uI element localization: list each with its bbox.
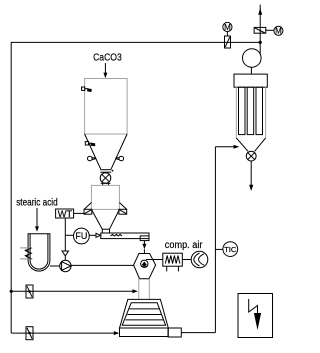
power supply symbol box xyxy=(238,294,273,338)
silo S1 body xyxy=(85,79,128,135)
svg-text:WT: WT xyxy=(58,209,73,219)
wire: tank to pump xyxy=(50,265,60,267)
mill hexagon xyxy=(134,254,156,279)
arrow: stearic acid feed xyxy=(35,208,39,232)
rotary valve RV2 xyxy=(246,151,256,161)
svg-text:M: M xyxy=(224,23,231,32)
level switch low xyxy=(85,142,95,147)
fan B1 xyxy=(243,49,262,74)
wire: recirculation top header xyxy=(11,41,260,43)
filter bag 2 xyxy=(247,87,254,134)
svg-text:CaCO3: CaCO3 xyxy=(93,52,122,63)
wire: right riser xyxy=(214,147,216,333)
wire: recirc lower into mill base xyxy=(11,331,119,335)
signal: branch to FU xyxy=(65,234,73,236)
heater element xyxy=(20,248,32,259)
instrument TIC xyxy=(215,242,237,257)
svg-text:FU: FU xyxy=(75,231,87,241)
wire: pump to mill xyxy=(71,264,134,266)
compressor K1 xyxy=(191,251,208,268)
valve V1 recirc damper xyxy=(225,36,231,48)
instrument FU xyxy=(74,228,90,244)
hopper discharge cone xyxy=(91,209,119,229)
svg-text:TIC: TIC xyxy=(224,245,237,254)
valve V4 xyxy=(26,327,33,340)
wire: heater to compressor xyxy=(182,259,191,261)
motor M2 xyxy=(266,26,283,35)
mill neck xyxy=(139,279,150,300)
signal: FU to feeder xyxy=(89,233,101,237)
load cell right xyxy=(119,203,127,215)
motor M1 xyxy=(223,22,232,36)
screw feeder xyxy=(101,229,149,240)
filter cone xyxy=(236,138,265,151)
signal: WT down to pump xyxy=(62,218,68,260)
level switch high xyxy=(82,87,92,92)
valve V3 xyxy=(26,285,33,298)
tank T1 jacketed vessel xyxy=(28,234,50,271)
mill stand inner grinding rings xyxy=(122,303,165,326)
wire: filter inlet xyxy=(215,145,239,149)
heater H1 xyxy=(163,253,183,271)
rotary valve RV1 xyxy=(100,173,111,186)
signal: WT to load cell xyxy=(74,212,84,214)
wire: left downcomer xyxy=(10,42,12,333)
weigh hopper xyxy=(91,185,119,209)
mill stand outer xyxy=(120,299,169,336)
junction node left xyxy=(10,290,13,293)
junction node xyxy=(259,41,262,44)
vibrator left xyxy=(88,156,96,161)
arrow: exhaust to atmosphere xyxy=(258,8,262,15)
valve V2 exhaust damper xyxy=(254,27,266,33)
svg-text:stearic acid: stearic acid xyxy=(16,197,58,209)
wire: mill outlet to right riser xyxy=(181,332,215,334)
load cell left xyxy=(84,203,92,215)
silo cone xyxy=(85,134,128,169)
arrow: CaCO3 feed xyxy=(103,63,107,78)
slide valve flange above RV1 xyxy=(100,170,113,173)
svg-text:M: M xyxy=(275,27,282,36)
pump P1 xyxy=(60,260,71,271)
instrument WT box xyxy=(56,209,74,219)
vibrator right xyxy=(115,156,123,161)
arrow: product discharge xyxy=(249,161,253,191)
svg-text:comp. air: comp. air xyxy=(165,240,203,251)
mill outlet box xyxy=(168,328,181,337)
wire: feeder drop to mill xyxy=(142,241,146,254)
wire: mill to heater xyxy=(146,259,163,261)
wire: fan outlet stub xyxy=(259,42,261,54)
filter bag 1 xyxy=(239,87,246,134)
filter bag 3 xyxy=(256,87,263,134)
bag filter housing xyxy=(234,74,267,138)
wire: recirc upper into mill neck xyxy=(11,289,138,293)
wire: exhaust riser xyxy=(259,5,261,43)
